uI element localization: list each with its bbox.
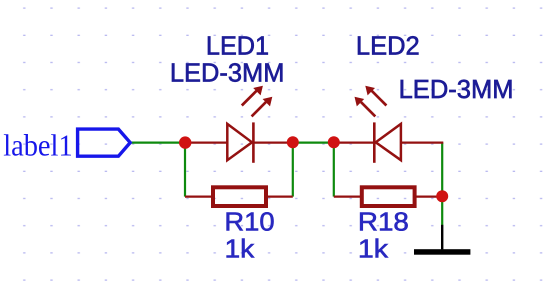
wire: node B down to R10 right pin (292, 143, 294, 197)
svg-text:R18: R18 (358, 206, 409, 236)
R18 left pin wire (334, 196, 362, 198)
LED1 anode pin wire (185, 142, 228, 144)
svg-text:1k: 1k (358, 234, 389, 264)
wire: node D down to ground (441, 196, 443, 225)
junction node D (436, 190, 448, 202)
LED1 light arrow 1 (242, 86, 263, 106)
LED2 anode pin wire (401, 142, 444, 144)
junction node C (328, 136, 340, 148)
LED2 cathode pin wire (334, 142, 375, 144)
junction node A (179, 136, 191, 148)
R18 right pin wire (415, 196, 443, 198)
terminal label1 tag (78, 129, 131, 156)
LED2 light arrow 1 (365, 86, 386, 106)
svg-text:LED1: LED1 (206, 31, 269, 61)
LED D1 symbol triangle (227, 124, 252, 160)
LED1 light arrow 2 (252, 97, 273, 117)
wire: LED2 anode corner down to node D (441, 143, 443, 197)
resistor R10 body (213, 187, 266, 206)
svg-text:label1: label1 (3, 128, 73, 163)
LED2 cathode bar (373, 122, 376, 162)
wire: node B to node C (293, 142, 334, 144)
LED2 light arrow 2 (355, 97, 376, 117)
svg-text:LED-3MM: LED-3MM (170, 57, 285, 87)
resistor R18 body (362, 187, 415, 206)
R10 right pin wire (266, 196, 293, 198)
R10 left pin wire (185, 196, 212, 198)
wire: node C down to R18 left pin (333, 143, 335, 197)
svg-text:1k: 1k (225, 233, 256, 263)
wire: label1 tag tip to node A (129, 142, 185, 144)
wire: node A down to R10 left pin (184, 143, 186, 197)
LED D2 symbol triangle (376, 124, 401, 160)
ground stub (441, 225, 443, 250)
svg-text:LED-3MM: LED-3MM (399, 74, 514, 104)
junction node B (287, 136, 299, 148)
svg-text:LED2: LED2 (356, 31, 420, 61)
svg-text:R10: R10 (224, 206, 274, 236)
LED1 cathode bar (252, 122, 255, 162)
ground bar (414, 249, 470, 255)
LED1 cathode pin wire (254, 142, 293, 144)
